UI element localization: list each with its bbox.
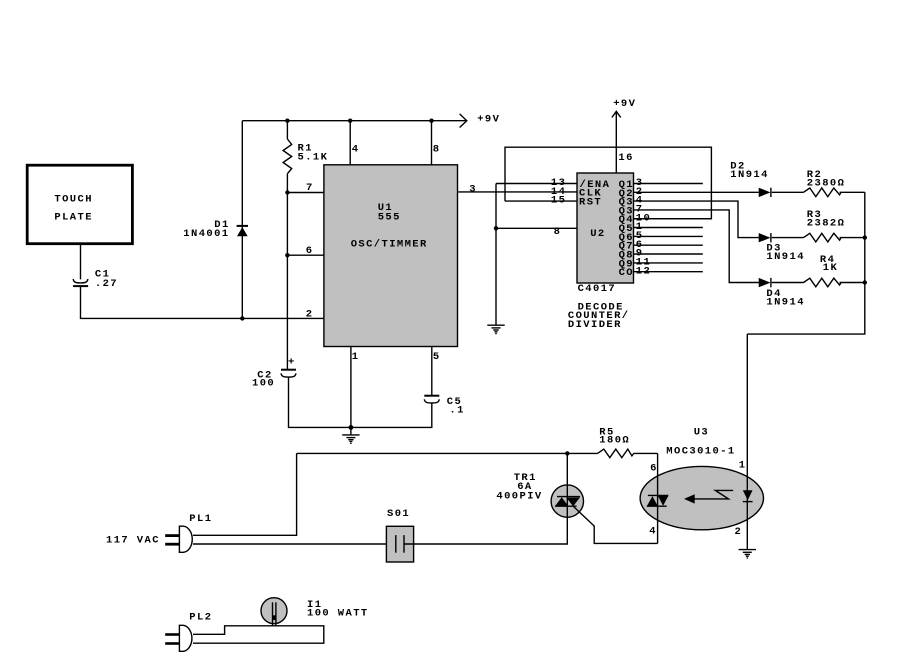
svg-text:+: + — [288, 356, 296, 368]
svg-text:2: 2 — [735, 526, 743, 538]
triac inside U3 — [647, 495, 669, 506]
svg-text:U3: U3 — [694, 427, 709, 439]
svg-text:16: 16 — [618, 152, 633, 164]
diode D4 — [759, 278, 805, 309]
wire touch plate to C1 — [80, 245, 82, 280]
wire C2 to ground rail — [289, 377, 351, 427]
svg-text:C4017: C4017 — [578, 283, 617, 295]
wire U2 Q6 pin 5 — [634, 230, 703, 242]
svg-text:400PIV: 400PIV — [496, 490, 542, 502]
svg-text:6: 6 — [650, 463, 658, 475]
svg-text:DIVIDER: DIVIDER — [568, 319, 622, 331]
svg-text:8: 8 — [554, 226, 562, 238]
lamp I1 — [261, 598, 369, 626]
touch plate box — [27, 165, 132, 244]
resistor R4 — [804, 254, 865, 287]
wire pin6 node to C2 — [286, 255, 288, 369]
wire top rail to R5 — [297, 452, 598, 454]
svg-text:15: 15 — [551, 195, 566, 207]
svg-text:555: 555 — [378, 212, 401, 224]
svg-text:4: 4 — [649, 526, 657, 538]
wire D3 to R3 — [772, 237, 804, 239]
wire PL2 lamp loop — [193, 626, 324, 643]
svg-text:180Ω: 180Ω — [599, 434, 630, 446]
svg-text:1N914: 1N914 — [766, 251, 805, 263]
wire U2 Q3 pin 7 to D4 — [634, 204, 759, 283]
svg-text:100 WATT: 100 WATT — [307, 608, 369, 620]
capacitor C2 — [252, 356, 296, 389]
wire U1 pin 5 — [432, 347, 441, 396]
junction rail/R1 — [285, 119, 289, 123]
svg-text:1: 1 — [352, 351, 360, 363]
wire U1 pin 3 to U2 CLK — [458, 184, 578, 198]
wire D2 to R2 — [772, 191, 804, 193]
svg-text:U2: U2 — [590, 228, 605, 240]
wire U1 pin 8 — [432, 121, 441, 165]
wire U3 pin6 through triac to pin4 — [649, 453, 658, 543]
wire U2 pin 16 +9V — [612, 98, 636, 173]
svg-text:6: 6 — [306, 245, 314, 257]
wire U2 Q8 pin 9 — [634, 248, 703, 260]
resistor R1 — [283, 121, 328, 193]
wire U1 pin 4 — [350, 121, 359, 165]
svg-text:2380Ω: 2380Ω — [807, 178, 846, 190]
svg-text:PLATE: PLATE — [54, 212, 93, 224]
plug PL1 — [165, 513, 212, 552]
LED inside U3 — [743, 490, 753, 501]
IC U1 555 — [324, 165, 458, 347]
wire U2 Q4 pin 10 — [634, 212, 712, 224]
wire U1 pin 6 — [285, 193, 324, 258]
wire U2 Q1 pin 3 — [634, 177, 703, 189]
plug PL2 — [165, 612, 212, 652]
svg-text:2382Ω: 2382Ω — [807, 217, 846, 229]
junction rail/pin8 — [429, 119, 433, 123]
triac TR1 — [496, 453, 583, 543]
junction ground node — [349, 425, 354, 430]
diode D3 — [759, 233, 805, 263]
wire U1 pin 7 — [285, 182, 324, 195]
wire right rail — [747, 192, 865, 334]
svg-text:MOC3010-1: MOC3010-1 — [666, 446, 735, 458]
ground under U2 — [487, 325, 504, 334]
svg-text:8: 8 — [433, 144, 441, 156]
wire TR1 gate to U3 pin 4 — [574, 507, 658, 544]
svg-text:OSC/TIMMER: OSC/TIMMER — [351, 238, 428, 250]
wire U2 CO pin 12 — [634, 265, 703, 277]
wire U1 pin 1 — [351, 347, 360, 428]
diode D1 — [183, 219, 248, 240]
svg-text:1: 1 — [739, 459, 747, 471]
svg-text:TOUCH: TOUCH — [54, 194, 93, 206]
wire U2 Q9 pin 11 — [634, 257, 703, 269]
wire bottom rail from PL1 up — [193, 453, 297, 535]
wire C1 to U1 pin 2 — [81, 287, 324, 319]
wire U2 Q3 pin 4 to D3 — [634, 195, 759, 238]
capacitor C5 — [424, 396, 465, 417]
svg-text:1N4001: 1N4001 — [183, 228, 229, 240]
wire U2 Q5 pin 1 — [634, 221, 703, 233]
svg-text:7: 7 — [306, 182, 314, 194]
optocoupler U3 body — [640, 427, 763, 530]
svg-text:S01: S01 — [387, 508, 410, 520]
junction rail/TR1 — [565, 451, 569, 455]
svg-text:+9V: +9V — [613, 98, 636, 110]
wire D4 to R4 — [772, 282, 804, 284]
svg-text:13: 13 — [551, 177, 566, 189]
wire S01 to TR1 — [404, 542, 567, 545]
junction C1/D1 node — [240, 316, 244, 320]
+9V rail top — [242, 120, 466, 122]
svg-text:3: 3 — [469, 184, 477, 196]
socket S01 — [386, 508, 413, 562]
photon arrow — [684, 490, 733, 503]
svg-text:117 VAC: 117 VAC — [106, 534, 160, 546]
wire C5 to ground rail — [351, 403, 432, 427]
svg-text:5.1K: 5.1K — [298, 151, 329, 163]
svg-text:CO: CO — [619, 267, 634, 279]
svg-text:.1: .1 — [449, 404, 464, 416]
junction rail/pin4 — [348, 119, 352, 123]
wire U2 Q2 pin 2 to D2 — [634, 186, 759, 198]
wire D1 branch vertical — [241, 121, 243, 319]
wire RST to Q4 loop — [505, 147, 711, 219]
svg-text:2: 2 — [306, 309, 314, 321]
resistor R2 — [804, 169, 865, 197]
capacitor C1 — [73, 269, 118, 291]
wire PL1 to S01 — [193, 543, 396, 545]
svg-text:RST: RST — [579, 196, 602, 208]
diode D2 — [730, 161, 771, 198]
wire ENA/VSS ground net — [494, 177, 577, 325]
ground under U1 — [342, 427, 359, 444]
svg-text:1N914: 1N914 — [766, 296, 805, 308]
svg-text:100: 100 — [252, 378, 275, 390]
svg-text:5: 5 — [433, 351, 441, 363]
svg-text:1N914: 1N914 — [730, 169, 769, 181]
IC U2 C4017 — [577, 173, 634, 283]
resistor R3 — [804, 209, 865, 242]
wire U3 pin 1 — [739, 334, 748, 549]
junction rail/R4 — [863, 280, 867, 284]
svg-text:12: 12 — [636, 265, 651, 277]
label DECODE COUNTER/DIVIDER — [568, 301, 630, 331]
svg-text:.27: .27 — [95, 278, 118, 290]
svg-text:4: 4 — [352, 144, 360, 156]
junction rail/R3 — [863, 235, 867, 239]
svg-text:1K: 1K — [823, 262, 838, 274]
power +9V arrow — [460, 113, 501, 127]
svg-text:PL2: PL2 — [189, 612, 212, 624]
wire U2 Q7 pin 6 — [634, 239, 703, 251]
resistor R5 — [598, 427, 658, 458]
ground under U3 — [739, 550, 756, 559]
svg-text:+9V: +9V — [477, 113, 500, 125]
svg-text:PL1: PL1 — [189, 513, 212, 525]
